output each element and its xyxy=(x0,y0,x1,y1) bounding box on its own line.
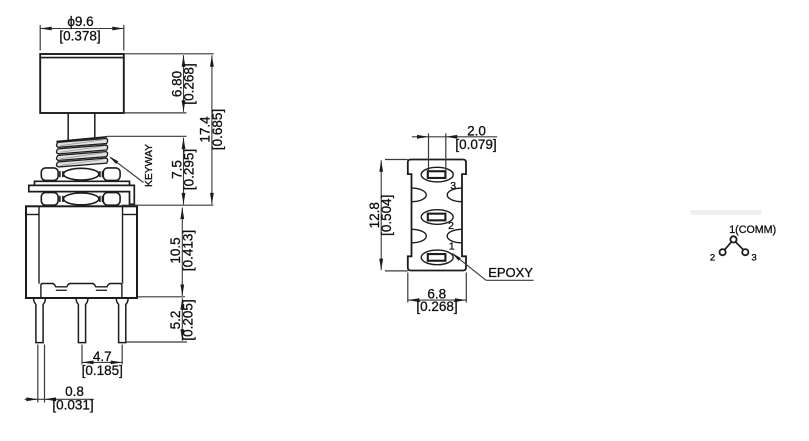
svg-text:[0.504]: [0.504] xyxy=(379,195,394,236)
svg-text:[0.268]: [0.268] xyxy=(182,63,197,104)
svg-text:[0.205]: [0.205] xyxy=(180,299,195,340)
svg-text:KEYWAY: KEYWAY xyxy=(144,144,155,187)
svg-text:[0.268]: [0.268] xyxy=(416,299,457,314)
svg-text:4.7: 4.7 xyxy=(93,349,112,364)
svg-text:EPOXY: EPOXY xyxy=(488,265,533,280)
svg-text:ϕ9.6: ϕ9.6 xyxy=(67,14,93,29)
svg-text:[0.378]: [0.378] xyxy=(59,29,100,44)
svg-text:[0.079]: [0.079] xyxy=(455,137,496,152)
svg-text:1(COMM): 1(COMM) xyxy=(729,224,776,236)
svg-text:1: 1 xyxy=(449,241,455,253)
svg-text:[0.685]: [0.685] xyxy=(210,109,225,150)
svg-text:[0.295]: [0.295] xyxy=(182,149,197,190)
svg-text:3: 3 xyxy=(450,180,456,192)
svg-text:[0.031]: [0.031] xyxy=(52,398,93,413)
svg-text:2: 2 xyxy=(448,220,454,232)
svg-text:[0.185]: [0.185] xyxy=(82,363,123,378)
svg-text:0.8: 0.8 xyxy=(65,384,84,399)
svg-text:2: 2 xyxy=(710,252,715,263)
svg-text:3: 3 xyxy=(751,252,756,263)
svg-text:[0.413]: [0.413] xyxy=(180,230,195,271)
